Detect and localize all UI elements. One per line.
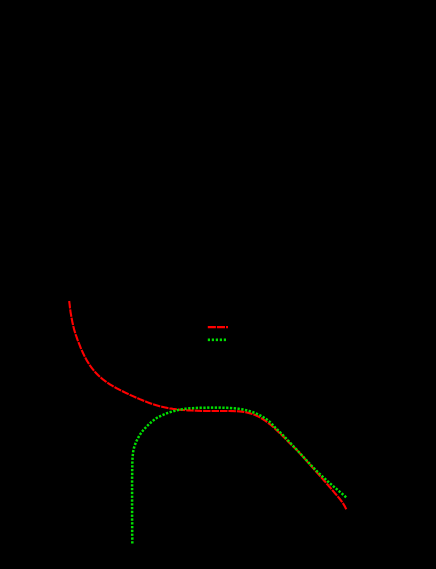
legend key: red dashed sample <box>208 326 228 328</box>
red dashed curve (series 1) <box>69 301 346 509</box>
legend key: green dotted sample <box>208 338 226 341</box>
green dotted curve (series 2) <box>132 408 347 544</box>
